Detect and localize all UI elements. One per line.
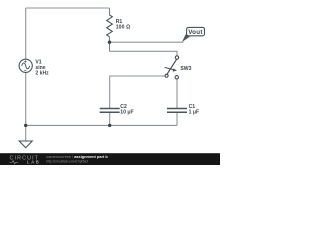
R1 label (116, 19, 131, 31)
svg-text:Vout: Vout (188, 29, 203, 36)
switch SW3 (165, 56, 179, 79)
wire switch pole to C2 branch (110, 76, 165, 108)
SW3 lever (167, 59, 177, 74)
wire top from left rail to R1 (26, 7, 110, 9)
voltage source V1 (19, 59, 32, 72)
SW3 throw 1 terminal (175, 56, 178, 59)
node junction ground rail left (24, 124, 27, 127)
C2 label (120, 104, 133, 116)
net flag Vout (182, 27, 205, 42)
SW3 pole terminal (165, 74, 168, 77)
capacitor C2 (100, 109, 120, 113)
V1 label (35, 59, 49, 76)
svg-text:10 μF: 10 μF (120, 109, 133, 115)
ground (19, 141, 32, 148)
wire R1 top lead (109, 8, 111, 15)
svg-text:100 Ω: 100 Ω (116, 25, 131, 31)
svg-text:http://circuitlab.com/c7qk5a3: http://circuitlab.com/c7qk5a3 (46, 159, 88, 163)
svg-text:2 kHz: 2 kHz (35, 71, 49, 77)
wire C1 bottom lead (176, 113, 178, 126)
SW3 throw 2 terminal (175, 76, 178, 79)
footer logo CIRCUIT LAB (10, 156, 41, 165)
node junction C2 on ground rail (108, 124, 111, 127)
SW3 actuator arrow (165, 67, 175, 70)
wire left rail lower (V1 bottom to ground node) (25, 72, 27, 141)
svg-text:cameroncreek / assignment part: cameroncreek / assignment part b (46, 154, 108, 159)
wire node to Vout flag (110, 41, 184, 43)
svg-text:LAB: LAB (27, 160, 40, 165)
wire C1 top lead to switch throw 2 (176, 79, 178, 108)
svg-text:1 μF: 1 μF (189, 109, 199, 115)
wire bottom ground rail (26, 124, 177, 126)
node junction at R1 bottom (108, 41, 111, 44)
svg-text:SW3: SW3 (180, 66, 191, 72)
wire left rail upper (to V1 top) (25, 8, 27, 59)
footer bar (0, 153, 220, 165)
resistor R1 (107, 15, 113, 37)
wire node down-right to switch top terminal (110, 51, 178, 56)
wire R1 bottom lead to node (109, 37, 111, 52)
wire C2 bottom lead (109, 113, 111, 126)
capacitor C1 (167, 109, 187, 113)
C1 label (189, 104, 199, 116)
